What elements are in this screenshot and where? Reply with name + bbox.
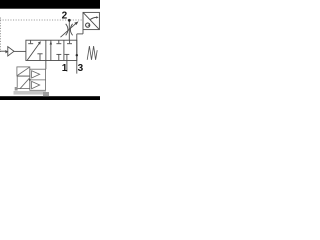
svg-text:2: 2	[62, 11, 68, 22]
svg-text:3: 3	[78, 63, 84, 74]
svg-text:1: 1	[62, 63, 68, 74]
